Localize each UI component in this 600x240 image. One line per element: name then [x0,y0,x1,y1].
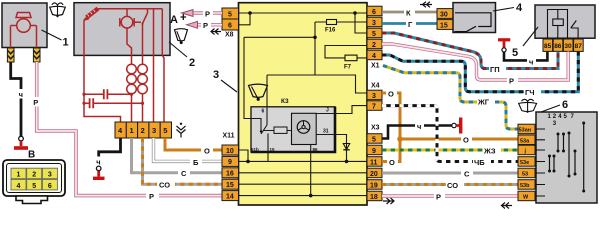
wire К X1:6 to switch 30 [382,11,437,14]
wire ЖГ to switch 53ан [383,66,518,130]
svg-text:С: С [181,169,187,178]
wire С X3:20 to switch 53 [382,172,518,175]
label 1 leader [42,30,62,40]
fuse F7 [345,55,357,61]
svg-text:53e: 53e [520,160,529,166]
svg-text:10: 10 [226,148,234,155]
wire ч connector pin4 to ground [99,138,121,166]
svg-text:СО: СО [447,181,458,190]
relay 5 body [535,5,595,38]
connector X8 pin 6 [222,19,239,30]
label Р (bottom run) [146,191,159,201]
node dot [248,11,252,15]
wire ЖЗ X3:9 to switch j [382,149,518,152]
ignition switch 4 body [453,3,496,33]
svg-text:20: 20 [370,171,378,178]
svg-text:85: 85 [544,43,552,50]
fuse F7 line [325,46,367,58]
svg-text:31: 31 [323,129,329,135]
wire СО strip pin2 to X11:15 [143,138,223,184]
suppression choke L1 [127,55,137,122]
svg-text:4: 4 [372,53,376,60]
svg-text:5: 5 [372,136,376,143]
svg-text:6: 6 [262,109,265,115]
K3 15 to L3 [267,152,269,161]
node A arrow [181,14,187,20]
wiper icon inside block [249,84,268,101]
svg-text:87: 87 [575,43,583,50]
svg-text:15: 15 [226,182,234,189]
connector B shell [3,160,65,204]
connector X3 pin 20 [367,168,382,178]
svg-text:6: 6 [372,9,376,16]
wire Г X1:3 to switch 15 [382,22,437,25]
washer jet icon near strip [177,123,186,138]
continuation marker below W [501,203,512,209]
K3 86 lead [310,145,312,153]
relay 5 pin 85 [543,39,553,51]
wire Б strip pin3 to X11:9 [154,138,223,161]
connector X1 pin 4 [367,50,382,60]
label СО [157,180,175,190]
wire О strip pin5 to X11:10 [165,138,222,150]
svg-text:3: 3 [372,93,376,100]
svg-text:Р: Р [203,21,208,30]
svg-text:6: 6 [48,183,52,190]
washer icon above switch 6 [519,99,537,113]
motor feed wires to connector [154,55,165,122]
svg-text:К: К [406,9,411,18]
svg-text:ГП: ГП [490,65,500,74]
connector X3 pin 18 [367,191,382,201]
label С (right) [461,169,473,179]
label Р (relay) [507,76,518,86]
node dot diode-L1 [345,160,349,164]
label Р (right) [434,192,445,202]
svg-text:3: 3 [372,20,376,27]
pump terminal pin right [33,48,40,62]
svg-text:X4: X4 [371,83,380,90]
arrow to A (top) [182,10,194,17]
connector X1 pin 3 [367,17,382,27]
svg-text:3: 3 [213,69,219,81]
connector B pins 1-6 [11,168,57,190]
wire ч black pump to ground [11,62,21,136]
switch 6 pin 53ан [518,124,535,134]
K3 15 lead [267,133,269,152]
label ГП [489,64,506,74]
connector X11 pin 10 [222,145,239,155]
svg-text:14: 14 [226,193,234,200]
svg-text:Р: Р [149,192,154,201]
wire С strip pin1 to X11:16 [132,138,223,173]
wire ч X3:5 to +12 tap [382,126,452,139]
mounting block 3 body [239,3,368,205]
connector X1 pin 2 [367,39,382,49]
relay 5 pin 30 [563,39,573,51]
label ЖГ [477,97,495,107]
connector X11 pin 14 [222,191,239,201]
wire СО X3:19 to switch 53b [382,183,518,186]
svg-text:О: О [204,146,210,155]
internal bus L3 X11:15 to X3:19 [239,183,368,185]
relay 5 pin 87 [574,39,584,51]
svg-text:15: 15 [440,22,448,29]
wire Р X3:18 to switch W [382,194,518,197]
label Р (bottom arrow) [201,20,211,30]
internal node line X8 to X1:6 [239,12,368,14]
internal link X8:6 [239,13,251,25]
label ч [17,89,26,99]
K3 contact dot [260,130,262,132]
svg-text:30: 30 [564,43,572,50]
label Р (vertical run) [32,97,42,107]
washer pump 1 body [2,3,47,48]
svg-text:7: 7 [372,103,376,110]
ground G1 [14,136,28,150]
switch 6 pin 53e [518,157,535,167]
svg-text:X11: X11 [223,133,235,140]
connector X3 pin 9 [367,145,382,155]
diode VD [343,144,349,150]
connector X4 pin 7 [367,101,382,111]
capacitor C2 [84,98,143,108]
svg-text:53a: 53a [520,138,530,144]
connector X11 pin 15 [222,179,239,189]
label ч (relay) [527,57,536,67]
connector X3 pin 11 [367,157,382,167]
svg-text:6: 6 [562,99,568,111]
svg-text:51b: 51b [251,147,259,152]
internal line to K3 left [244,37,315,118]
K3 terminal 31 line [316,134,335,136]
K3 86 to L4 [310,152,312,196]
K3 switch blade [261,125,267,134]
svg-text:86: 86 [554,43,562,50]
svg-text:J: J [326,108,329,114]
svg-text:О: О [463,136,469,145]
orange junction dot [397,136,403,142]
connector X3 pin 19 [367,180,382,190]
svg-text:F16: F16 [325,28,336,34]
junction dots on motor wiring [82,93,144,105]
svg-text:2: 2 [372,42,376,49]
svg-text:19: 19 [370,182,378,189]
node dot [353,11,357,15]
label 6 leader [541,105,560,112]
svg-text:5: 5 [163,126,167,135]
svg-text:ч: ч [96,158,100,167]
wire Р pink pump to X11:14 [37,62,222,196]
switch 6 pin j [518,145,535,155]
switch 6 pin stubs [535,129,545,196]
wire to connector pin 4 [84,55,121,122]
+12V supply symbol side [452,118,463,134]
svg-text:9: 9 [372,148,376,155]
wire Р X1:2 to relay 30 [382,44,568,80]
svg-text:ЖГ: ЖГ [477,97,490,106]
svg-text:Б: Б [193,158,199,167]
svg-text:2: 2 [189,57,195,69]
label О (X4:3) [386,89,397,99]
svg-text:ЖЗ: ЖЗ [483,147,496,156]
svg-text:1: 1 [130,126,134,135]
continuation marker near 30 [420,2,432,8]
svg-text:5: 5 [512,47,518,59]
K3 fixed contact [251,119,261,132]
wire ч +12 to relay 85 [504,52,547,61]
motor connector strip pins 4 1 2 3 5 [115,122,172,138]
K3 inner unit [292,113,317,144]
svg-text:Р: Р [33,98,38,107]
internal link X11:10 [239,150,249,161]
switch 6 pin 53 [518,168,535,178]
washer spray icon top [50,3,66,17]
label ч (pin4 wire) [95,157,104,167]
svg-text:3: 3 [152,126,156,135]
svg-text:СО: СО [159,181,170,190]
connector X1 pin 6 [367,6,382,16]
label 3 leader [221,80,237,92]
svg-text:53b: 53b [520,183,530,189]
capacitor C1 [84,89,132,99]
svg-text:1: 1 [17,172,21,179]
connector X11 pin 16 [222,168,239,178]
svg-text:ч: ч [417,122,421,131]
label Р (top arrow) [203,9,213,19]
svg-text:11: 11 [370,159,378,166]
internal bus L2 X11:16 to X3:20 [239,172,368,174]
internal link to X1:5 [355,13,367,33]
wire ГЧ X1:4 to relay 87 [382,52,578,92]
internal bus L4 X11:14 to X3:18 [239,195,368,197]
suppression choke L2 [138,55,148,122]
thermal fuse element inside motor [84,9,99,22]
wiper motor 2 body [74,3,170,56]
svg-text:4: 4 [516,2,523,14]
continuation marker X8 [211,29,221,35]
switch 6 column numbers [548,114,575,127]
svg-text:Г: Г [408,20,413,29]
svg-text:9: 9 [228,159,232,166]
connector X3 pin 5 [367,134,382,144]
svg-text:30: 30 [440,11,448,18]
svg-text:X3: X3 [371,125,380,132]
svg-text:5: 5 [372,31,376,38]
svg-text:53: 53 [522,172,528,178]
ignition switch 4 pin 30 [437,9,453,19]
svg-text:4: 4 [17,183,21,190]
connector X8 pin 5 [222,8,239,19]
K3 coil resistor [263,127,292,133]
continuation marker bottom [383,198,394,204]
svg-text:16: 16 [226,171,234,178]
svg-text:1: 1 [63,37,69,49]
+12V supply symbol top [498,38,510,52]
label О (X3:11) [387,157,398,167]
connector X11 pin 9 [222,156,239,166]
label ЧБ [473,157,491,167]
svg-text:ч: ч [529,57,533,66]
pump terminal pin left [7,48,14,62]
svg-text:5: 5 [228,12,232,19]
svg-text:Р: Р [436,193,441,202]
svg-text:53ан: 53ан [519,128,532,134]
internal line J to X4:7 [335,106,367,114]
label Б [190,157,202,167]
arrow to A (bottom) [187,21,198,28]
svg-text:Р: Р [205,9,210,18]
internal line 31 to diode [335,135,347,162]
svg-text:ЧБ: ЧБ [474,158,485,167]
wire О junction to 53a and X3:11 [382,139,518,162]
label 2 leader [169,42,187,57]
internal bus L1 X11:9 to X3:11 [239,160,368,162]
switch 6 pin W [518,191,535,201]
label К [404,8,415,18]
label ЖЗ [483,146,501,156]
label ч (X3:5) [415,121,424,131]
ground G2 [93,166,105,180]
switch 6 contact dots [548,122,585,193]
svg-text:6: 6 [228,23,232,30]
motor internal circuit [84,9,162,56]
wiper icon right of motor [175,29,188,44]
svg-text:X1: X1 [371,63,380,70]
K3 pin 6 lead [266,75,268,125]
svg-text:А: А [170,14,178,26]
svg-text:F7: F7 [344,65,352,71]
svg-text:86: 86 [313,147,319,152]
svg-text:5: 5 [32,183,36,190]
label О [201,146,213,156]
svg-text:2: 2 [32,172,36,179]
wire О X4:3 down [382,93,400,139]
svg-text:О: О [389,158,395,167]
connector X4 pin 3 [367,90,382,100]
switch 6 pin 53b [518,180,535,190]
fuse F16 [327,20,337,25]
K3 terminal J line [316,113,335,115]
label СО (right) [446,180,464,190]
connector X1 pin 5 [367,28,382,38]
label 5 leader [523,27,538,46]
svg-text:Х8: Х8 [225,32,234,39]
label Г [406,19,416,29]
svg-text:О: О [388,90,394,99]
svg-text:W: W [523,195,529,201]
wiper switch 6 body [536,112,597,203]
svg-text:15: 15 [270,147,276,152]
relay 5 pin 86 [553,39,563,51]
svg-text:ч: ч [19,90,23,99]
wire ЧБ X4:7 to switch 53e [382,106,518,162]
ignition switch 4 pin 15 [437,20,453,30]
wire П pink to arrow A1 [193,11,222,14]
node dot [313,36,317,40]
switch 6 contact bars [550,123,584,191]
svg-text:2: 2 [141,126,145,135]
switch 6 pin 53a [518,135,535,145]
fuse F16 line [267,22,367,93]
label С [178,169,190,179]
svg-text:ГЧ: ГЧ [525,88,535,97]
node dot [246,160,250,164]
svg-text:К3: К3 [281,98,289,105]
svg-text:Р: Р [509,76,514,85]
label 4 leader [493,8,514,12]
label О (53a wire) [461,135,472,145]
K3 motor symbol [297,121,310,134]
svg-text:18: 18 [370,194,378,201]
svg-text:С: С [464,170,470,179]
label ГЧ [524,87,541,97]
svg-text:3: 3 [48,172,52,179]
svg-text:В: В [28,150,35,161]
wire П pink to arrow A2 [198,23,223,26]
node dot [309,194,313,198]
relay K3 box [251,107,335,152]
wire ГП X1:5 to relay 86 [382,33,558,69]
